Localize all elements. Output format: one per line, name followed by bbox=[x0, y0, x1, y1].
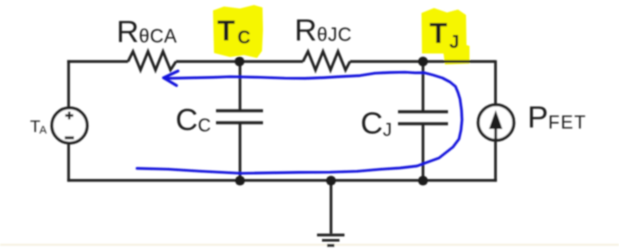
node Tc (junction dot) bbox=[235, 57, 245, 67]
wire: Cj branch lower (bottom plate down to bottom rail) bbox=[422, 124, 425, 180]
wire: Cc branch lower (bottom plate down to bottom rail) bbox=[239, 123, 242, 180]
wire: bottom rail bbox=[67, 179, 497, 182]
capacitor Cc plates bbox=[216, 111, 263, 123]
wire: Cc branch upper (node Tc down to top plate) bbox=[239, 62, 242, 111]
wire: left vertical from top rail down to source Ta bbox=[67, 60, 70, 107]
wire: top rail middle segment (RθCA to RθJC through node Tc) bbox=[176, 60, 303, 63]
junction dot: Cc at bottom rail bbox=[235, 176, 245, 186]
capacitor Cj plates bbox=[398, 112, 448, 124]
svg-text:RθJC: RθJC bbox=[295, 13, 352, 48]
junction dot: Cj at bottom rail bbox=[418, 176, 428, 186]
annotation: blue arrowhead bbox=[164, 71, 179, 86]
resistor RθJC (zigzag) bbox=[303, 52, 350, 71]
faint cream rule near bottom of page bbox=[0, 244, 619, 246]
junction dot: ground at bottom rail bbox=[326, 176, 336, 186]
wire: Cj branch upper (node Tj down to top plate) bbox=[422, 62, 425, 112]
highlighter mark over node Tc bbox=[213, 5, 263, 58]
highlighter mark over node Tj bbox=[422, 8, 470, 65]
svg-text:TA: TA bbox=[30, 117, 47, 137]
svg-text:RθCA: RθCA bbox=[117, 14, 178, 49]
svg-text:CJ: CJ bbox=[361, 106, 392, 141]
annotation: blue hand-drawn loop bbox=[137, 72, 462, 173]
wire: right vertical from top rail down to source Pfet bbox=[494, 60, 497, 104]
svg-text:CC: CC bbox=[176, 102, 211, 137]
wire: top rail left segment (Ta to RθCA) bbox=[67, 60, 128, 63]
ground symbol bbox=[317, 235, 345, 245]
wire: left vertical from source Ta to bottom rail bbox=[67, 144, 70, 182]
wire: top rail right segment (RθJC to top-right corner) bbox=[350, 60, 495, 63]
source Ta (ambient temperature, circle with + and -) bbox=[52, 108, 87, 143]
svg-text:PFET: PFET bbox=[528, 100, 587, 135]
wire: right vertical from source Pfet to bottom rail bbox=[494, 141, 497, 182]
node Tj (junction dot) bbox=[418, 57, 428, 67]
source Pfet (current source, circle with up arrow) bbox=[478, 105, 514, 141]
wire: ground stem bbox=[330, 180, 333, 233]
resistor RθCA (zigzag) bbox=[128, 52, 176, 71]
